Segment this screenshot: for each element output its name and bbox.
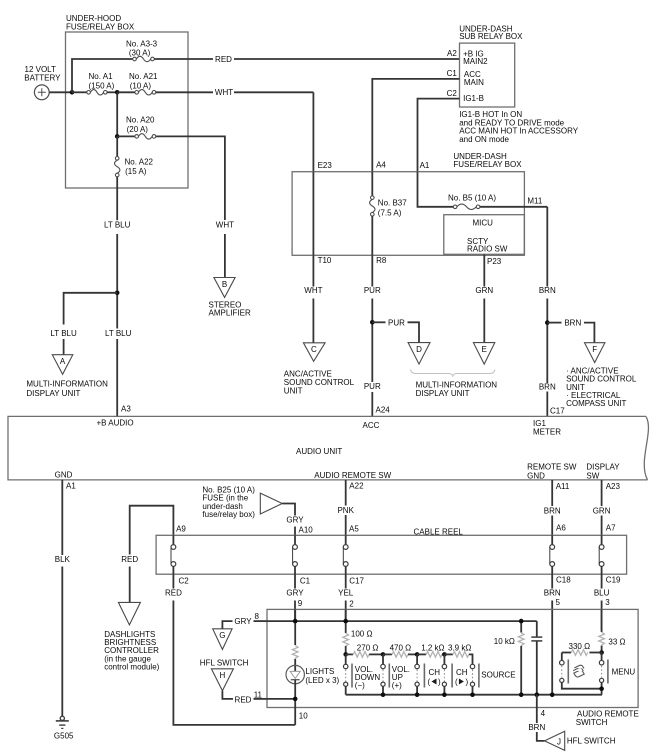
svg-text:9: 9 <box>298 599 303 608</box>
pin A6 <box>556 524 566 533</box>
wire label GRN <box>475 286 493 295</box>
anc/active sound control + electrical compass label (F) <box>566 366 637 408</box>
wire WHT to stereo amplifier <box>224 234 226 278</box>
resistor 470 ohm <box>383 644 411 658</box>
svg-text:GND: GND <box>527 472 545 481</box>
svg-text:COMPASS UNIT: COMPASS UNIT <box>566 399 626 408</box>
svg-text:METER: METER <box>533 428 561 437</box>
connector triangle E <box>473 343 494 365</box>
resistor 1.2 kohm <box>417 644 444 658</box>
wire LT BLU main column <box>116 177 118 220</box>
connector triangle G <box>213 629 232 650</box>
fuse No. A1 (150 A) <box>72 72 117 95</box>
bottom bus wire <box>346 694 602 696</box>
svg-text:HFL SWITCH: HFL SWITCH <box>200 658 249 667</box>
wire label BLU <box>594 588 610 597</box>
svg-text:11: 11 <box>254 690 263 699</box>
node junction BRN branch <box>545 320 550 325</box>
wire A1 down and right to fuse B5 <box>418 172 454 207</box>
wire label WHT <box>215 88 233 97</box>
svg-text:C1: C1 <box>447 69 458 78</box>
wire A23 GRN column <box>601 480 603 506</box>
pin C2 <box>179 577 190 586</box>
wire label GRY <box>286 588 304 597</box>
pin A23 <box>606 482 621 491</box>
under-dash fuse/relay box <box>292 152 524 255</box>
svg-text:C1: C1 <box>300 577 311 586</box>
wire pin 10 stub <box>294 708 296 725</box>
svg-text:4: 4 <box>541 709 546 718</box>
svg-text:C19: C19 <box>606 576 621 585</box>
svg-text:A5: A5 <box>349 525 359 534</box>
HFL SWITCH label (J) <box>567 737 616 746</box>
svg-text:10: 10 <box>299 712 308 721</box>
svg-text:1.2 kΩ: 1.2 kΩ <box>421 644 444 653</box>
node junction after A1 <box>115 90 120 95</box>
resistor 100 ohm <box>343 630 373 646</box>
svg-text:LT BLU: LT BLU <box>104 221 131 230</box>
svg-text:CH: CH <box>429 668 441 677</box>
GND pin label <box>55 471 73 480</box>
svg-text:MULTI-INFORMATION: MULTI-INFORMATION <box>26 380 108 389</box>
audio unit box <box>8 416 648 480</box>
wire label YEL <box>338 588 354 597</box>
svg-text:3.9 kΩ: 3.9 kΩ <box>448 644 471 653</box>
wire BLK GND column <box>61 480 63 555</box>
IG1-B label <box>463 94 484 103</box>
wire BRN below C18 <box>551 574 553 588</box>
svg-text:330 Ω: 330 Ω <box>569 642 591 651</box>
REMOTE SW GND pin label <box>527 462 577 480</box>
svg-text:10 kΩ: 10 kΩ <box>494 637 515 646</box>
wire label PUR lower <box>364 382 381 391</box>
connector pair A10/C1 <box>293 535 298 574</box>
wire label BRN <box>539 286 556 295</box>
svg-text:(−): (−) <box>355 681 365 690</box>
anc/active sound control unit label (C) <box>284 369 355 395</box>
wire BRN M11 column <box>546 207 548 287</box>
svg-text:HFL SWITCH: HFL SWITCH <box>567 737 616 746</box>
fuse No. B5 (10 A) <box>448 193 496 209</box>
wire label LT BLU left <box>50 329 77 338</box>
svg-text:470 Ω: 470 Ω <box>390 644 412 653</box>
wire RED pin 11 line to LED junction <box>267 698 295 700</box>
brace under D and E <box>410 370 495 377</box>
wire label BRN lower <box>539 382 556 391</box>
MICU box <box>444 215 525 255</box>
svg-text:MENU: MENU <box>612 668 636 677</box>
svg-text:A3: A3 <box>121 405 131 414</box>
svg-text:P23: P23 <box>487 257 502 266</box>
ground G505 <box>54 716 74 741</box>
svg-text:A9: A9 <box>176 525 186 534</box>
svg-text:(LED x 3): (LED x 3) <box>305 676 339 685</box>
svg-text:REMOTE SW: REMOTE SW <box>527 462 577 471</box>
No. B25 fuse note <box>202 486 255 520</box>
svg-text:WHT: WHT <box>304 286 322 295</box>
svg-text:A1: A1 <box>66 482 76 491</box>
wire label PUR <box>364 286 381 295</box>
svg-text:C18: C18 <box>556 576 571 585</box>
svg-text:MAIN: MAIN <box>464 78 484 87</box>
pin P23 <box>487 257 502 266</box>
wire GRY below C1 <box>294 574 296 588</box>
svg-text:LIGHTS: LIGHTS <box>305 667 334 676</box>
+B AUDIO pin label <box>97 418 134 427</box>
svg-text:AUDIO REMOTE SW: AUDIO REMOTE SW <box>314 471 391 480</box>
resistor 10 kohm <box>494 621 524 695</box>
svg-text:BRN: BRN <box>539 286 556 295</box>
wire RED row to sub relay box A2 <box>154 58 213 60</box>
svg-text:No. B37: No. B37 <box>378 199 407 208</box>
resistor 270 ohm <box>346 644 379 658</box>
svg-text:A6: A6 <box>556 524 566 533</box>
svg-text:A1: A1 <box>420 161 430 170</box>
node junction battery feed <box>70 90 75 95</box>
svg-text:fuse/relay box): fuse/relay box) <box>202 510 255 519</box>
svg-text:(150 A): (150 A) <box>89 81 115 90</box>
svg-text:SOURCE: SOURCE <box>481 671 515 680</box>
svg-text:D: D <box>416 345 422 354</box>
wire label WHT <box>304 286 322 295</box>
svg-text:control module): control module) <box>104 663 159 672</box>
wire E23 through box <box>312 172 314 256</box>
svg-text:A10: A10 <box>299 526 314 535</box>
connector triangle H <box>211 669 233 691</box>
cable reel box <box>156 527 626 574</box>
wire label GRY <box>286 515 304 524</box>
pin A10 <box>299 526 314 535</box>
svg-text:(15 A): (15 A) <box>125 167 147 176</box>
wire WHT row <box>156 91 213 93</box>
wire label BRN <box>544 507 561 516</box>
pin 3 <box>605 598 610 607</box>
svg-text:DISPLAY UNIT: DISPLAY UNIT <box>26 389 80 398</box>
svg-text:C17: C17 <box>550 406 565 415</box>
under-dash sub relay box <box>459 24 523 107</box>
battery 12 VOLT <box>24 65 61 100</box>
wire A11 BRN column <box>551 480 553 506</box>
pin 2 <box>349 600 354 609</box>
svg-text:A: A <box>60 357 66 366</box>
svg-text:No. A22: No. A22 <box>125 157 154 166</box>
pin 11 <box>254 690 263 699</box>
svg-text:SUB RELAY BOX: SUB RELAY BOX <box>459 32 523 41</box>
svg-text:A7: A7 <box>606 524 616 533</box>
svg-text:270 Ω: 270 Ω <box>357 644 379 653</box>
svg-text:PUR: PUR <box>364 286 381 295</box>
wire 2 column <box>345 609 347 633</box>
svg-text:No. B5 (10 A): No. B5 (10 A) <box>448 193 496 202</box>
wire label BLK <box>55 555 71 564</box>
node junction LED/RED <box>293 697 298 702</box>
wire label RED <box>235 695 252 704</box>
wire GRN below P23 <box>483 254 485 286</box>
wire RED below C2 <box>172 574 174 588</box>
svg-text:(7.5 A): (7.5 A) <box>378 208 402 217</box>
svg-text:100 Ω: 100 Ω <box>351 630 373 639</box>
connector pair A9/C2 <box>171 535 176 574</box>
LED LIGHTS (LED x 3) <box>286 665 340 685</box>
connector triangle dashlights controller <box>118 602 140 625</box>
svg-text:): ) <box>466 678 469 687</box>
wire B25 triangle to A10 column <box>282 504 295 516</box>
pin A2 <box>447 49 457 58</box>
pin A1 <box>420 161 430 170</box>
svg-text:GND: GND <box>55 471 73 480</box>
wire A20 to stereo amp column <box>156 136 225 220</box>
svg-text:GRN: GRN <box>593 507 611 516</box>
AUDIO REMOTE SW pin label <box>314 471 391 480</box>
wire 3 column <box>601 609 603 632</box>
wire label BRN <box>544 588 561 597</box>
svg-text:C: C <box>311 345 317 354</box>
svg-text:MAIN2: MAIN2 <box>463 57 488 66</box>
svg-text:RED: RED <box>235 695 252 704</box>
resistor 33 ohm <box>599 632 626 646</box>
pin C17 <box>550 406 565 415</box>
HFL SWITCH label (G,H) <box>200 658 249 667</box>
pin M11 <box>527 197 543 206</box>
svg-text:GRY: GRY <box>286 588 304 597</box>
svg-text:G505: G505 <box>54 732 74 741</box>
wire up to fuse A3-3 row <box>72 59 133 92</box>
pin C17 <box>349 577 364 586</box>
wire GRY bus inside switch <box>267 620 537 622</box>
node junction LT BLU branch <box>115 291 120 296</box>
svg-text:E23: E23 <box>318 161 333 170</box>
node junction chain CH up <box>442 652 447 657</box>
wire A22 PNK column <box>345 480 347 506</box>
connector triangle J (points left) <box>545 731 565 750</box>
svg-text:M11: M11 <box>527 197 543 206</box>
wire 9 lamp column <box>294 609 296 645</box>
wire down to A20 row <box>116 92 118 136</box>
pin A22 <box>349 482 364 491</box>
connector triangle D <box>408 343 430 365</box>
svg-text:No. A21: No. A21 <box>129 72 158 81</box>
connector triangle B25 (points right) <box>260 493 282 514</box>
pin 5 <box>556 598 561 607</box>
node junction 33/330 <box>599 650 604 655</box>
resistor 330 ohm <box>562 642 602 655</box>
svg-text:A23: A23 <box>606 482 621 491</box>
pin A11 <box>556 482 570 491</box>
svg-text:H: H <box>220 671 226 680</box>
svg-text:BRN: BRN <box>528 723 545 732</box>
fuse No. A22 (15 A) vertical <box>115 136 154 176</box>
svg-text:CABLE REEL: CABLE REEL <box>414 527 464 536</box>
node junction chain VOL UP <box>381 652 386 657</box>
wire A4 to fuse B37 <box>371 172 373 196</box>
svg-text:UNIT: UNIT <box>284 386 303 395</box>
connector triangle B <box>214 278 235 298</box>
node junction 2/GRY <box>343 619 348 624</box>
svg-text:(20 A): (20 A) <box>127 125 149 134</box>
wire R8 below B37 <box>371 216 373 255</box>
svg-text:BATTERY: BATTERY <box>24 74 61 83</box>
connector triangle F <box>585 343 605 363</box>
svg-text:): ) <box>438 678 441 687</box>
svg-text:J: J <box>557 737 561 746</box>
wire BLU below C19 <box>601 574 603 588</box>
switch MENU <box>560 653 636 695</box>
svg-text:33 Ω: 33 Ω <box>608 638 625 647</box>
svg-text:R8: R8 <box>376 256 387 265</box>
node junction 10k top <box>519 619 524 624</box>
pin A5 <box>349 525 359 534</box>
wire WHT corner into E23 <box>312 92 314 171</box>
wire label PNK <box>337 506 354 515</box>
svg-text:GRY: GRY <box>286 515 304 524</box>
svg-text:BRN: BRN <box>539 382 556 391</box>
svg-text:(: ( <box>428 678 431 687</box>
svg-text:RED: RED <box>165 588 182 597</box>
wire branch PUR to triangle D <box>372 321 385 323</box>
svg-text:ACC: ACC <box>363 421 380 430</box>
svg-text:DISPLAY UNIT: DISPLAY UNIT <box>416 389 470 398</box>
svg-text:8: 8 <box>255 612 260 621</box>
wire C1 to PUR column <box>372 79 459 172</box>
svg-text:WHT: WHT <box>216 221 234 230</box>
svg-text:PUR: PUR <box>388 318 405 327</box>
wire label BRN <box>528 723 545 732</box>
svg-text:A2: A2 <box>447 49 457 58</box>
resistor lamp series <box>292 646 298 659</box>
resistor 3.9 kohm <box>444 644 471 658</box>
svg-text:(30 A): (30 A) <box>129 48 151 57</box>
svg-text:GRY: GRY <box>234 617 252 626</box>
svg-text:BLK: BLK <box>55 555 71 564</box>
wire dashlights RED loop from A9 <box>130 506 174 555</box>
capacitor C <box>531 621 542 695</box>
pin A24 <box>376 406 391 415</box>
ACC MAIN label <box>464 70 484 87</box>
stereo amplifier label <box>209 301 251 318</box>
svg-text:LT BLU: LT BLU <box>105 329 132 338</box>
fuse No. A21 (10 A) <box>117 72 158 95</box>
pin A3 <box>121 405 131 414</box>
svg-text:AUDIO UNIT: AUDIO UNIT <box>296 447 342 456</box>
dashlights brightness controller label <box>104 630 159 672</box>
svg-text:No. A1: No. A1 <box>89 72 114 81</box>
svg-text:YEL: YEL <box>338 588 354 597</box>
svg-text:AMPLIFIER: AMPLIFIER <box>209 309 251 318</box>
pin A1 <box>66 482 76 491</box>
wire LED to pin 10 <box>294 680 296 708</box>
svg-text:3: 3 <box>605 598 610 607</box>
svg-text:FUSE/RELAY BOX: FUSE/RELAY BOX <box>453 160 522 169</box>
svg-text:C2: C2 <box>179 577 190 586</box>
node junction PUR branch <box>370 320 375 325</box>
node junction chain VOL DOWN <box>343 652 348 657</box>
pin T10 <box>318 256 332 265</box>
note IG1-B hot modes <box>459 110 579 144</box>
svg-text:No. A3-3: No. A3-3 <box>126 40 158 49</box>
switch VOL DOWN <box>343 654 380 694</box>
svg-text:No. A20: No. A20 <box>126 116 155 125</box>
pin 10 <box>299 712 308 721</box>
svg-text:PNK: PNK <box>337 506 354 515</box>
connector triangle C <box>303 343 325 362</box>
ACC pin label <box>363 421 380 430</box>
svg-text:A11: A11 <box>556 482 570 491</box>
switch SOURCE <box>470 664 515 695</box>
switch VOL UP <box>381 654 410 694</box>
svg-text:C2: C2 <box>447 89 458 98</box>
pin 4 <box>541 709 546 718</box>
wire branch to triangle A <box>64 293 118 325</box>
SCTY RADIO SW label <box>467 237 508 254</box>
svg-text:GRN: GRN <box>475 286 493 295</box>
wire label RED <box>121 555 138 564</box>
connector pair A6/C18 <box>550 535 555 574</box>
node junction A20/A22 <box>115 134 120 139</box>
node junction chain CH down <box>415 652 420 657</box>
svg-text:5: 5 <box>556 598 561 607</box>
svg-text:and ON mode: and ON mode <box>459 135 509 144</box>
svg-text:A22: A22 <box>349 482 364 491</box>
svg-text:(10 A): (10 A) <box>130 81 152 90</box>
wire PUR below R8 <box>371 255 373 286</box>
svg-text:SWITCH: SWITCH <box>576 718 608 727</box>
svg-text:A4: A4 <box>376 160 386 169</box>
pin 8 <box>255 612 260 621</box>
pin C19 <box>606 576 621 585</box>
svg-text:IG1-B: IG1-B <box>463 94 484 103</box>
DISPLAY SW pin label <box>586 462 620 480</box>
wire label RED <box>165 588 182 597</box>
svg-text:F: F <box>592 345 597 354</box>
svg-text:A24: A24 <box>376 406 391 415</box>
fuse No. A3-3 (30 A) <box>126 40 158 62</box>
fuse No. A20 (20 A) <box>117 116 156 139</box>
wire 4 column <box>536 695 538 723</box>
wire WHT below T10 <box>312 255 314 286</box>
wire G to pin 8 <box>222 621 232 629</box>
pin C18 <box>556 576 571 585</box>
pin C1 <box>447 69 458 78</box>
svg-text:G: G <box>219 631 225 640</box>
wire branch BRN to triangle F <box>547 322 561 324</box>
wire H to pin 11 <box>222 691 233 699</box>
svg-text:LT BLU: LT BLU <box>50 329 77 338</box>
svg-text:+B AUDIO: +B AUDIO <box>97 418 134 427</box>
wire label WHT <box>216 221 234 230</box>
svg-text:RED: RED <box>121 555 138 564</box>
pin 9 <box>298 599 303 608</box>
audio remote switch box <box>267 609 639 727</box>
pin C1 <box>300 577 311 586</box>
IG1 METER pin label <box>533 419 561 437</box>
svg-text:PUR: PUR <box>364 382 381 391</box>
svg-text:E: E <box>482 345 487 354</box>
switch CH down <box>415 654 441 694</box>
svg-text:MICU: MICU <box>473 218 494 227</box>
connector pair A5/C17 <box>343 535 348 574</box>
pin E23 <box>318 161 333 170</box>
pin A9 <box>176 525 186 534</box>
node junctions on bus <box>381 692 386 697</box>
pin A7 <box>606 524 616 533</box>
pin C2 <box>447 89 458 98</box>
fuse No. B37 (7.5 A) <box>370 196 408 218</box>
switch CH up <box>442 654 468 694</box>
svg-text:BRN: BRN <box>544 507 561 516</box>
svg-text:WHT: WHT <box>215 88 233 97</box>
svg-text:BLU: BLU <box>594 588 610 597</box>
connector triangle A <box>52 355 73 375</box>
